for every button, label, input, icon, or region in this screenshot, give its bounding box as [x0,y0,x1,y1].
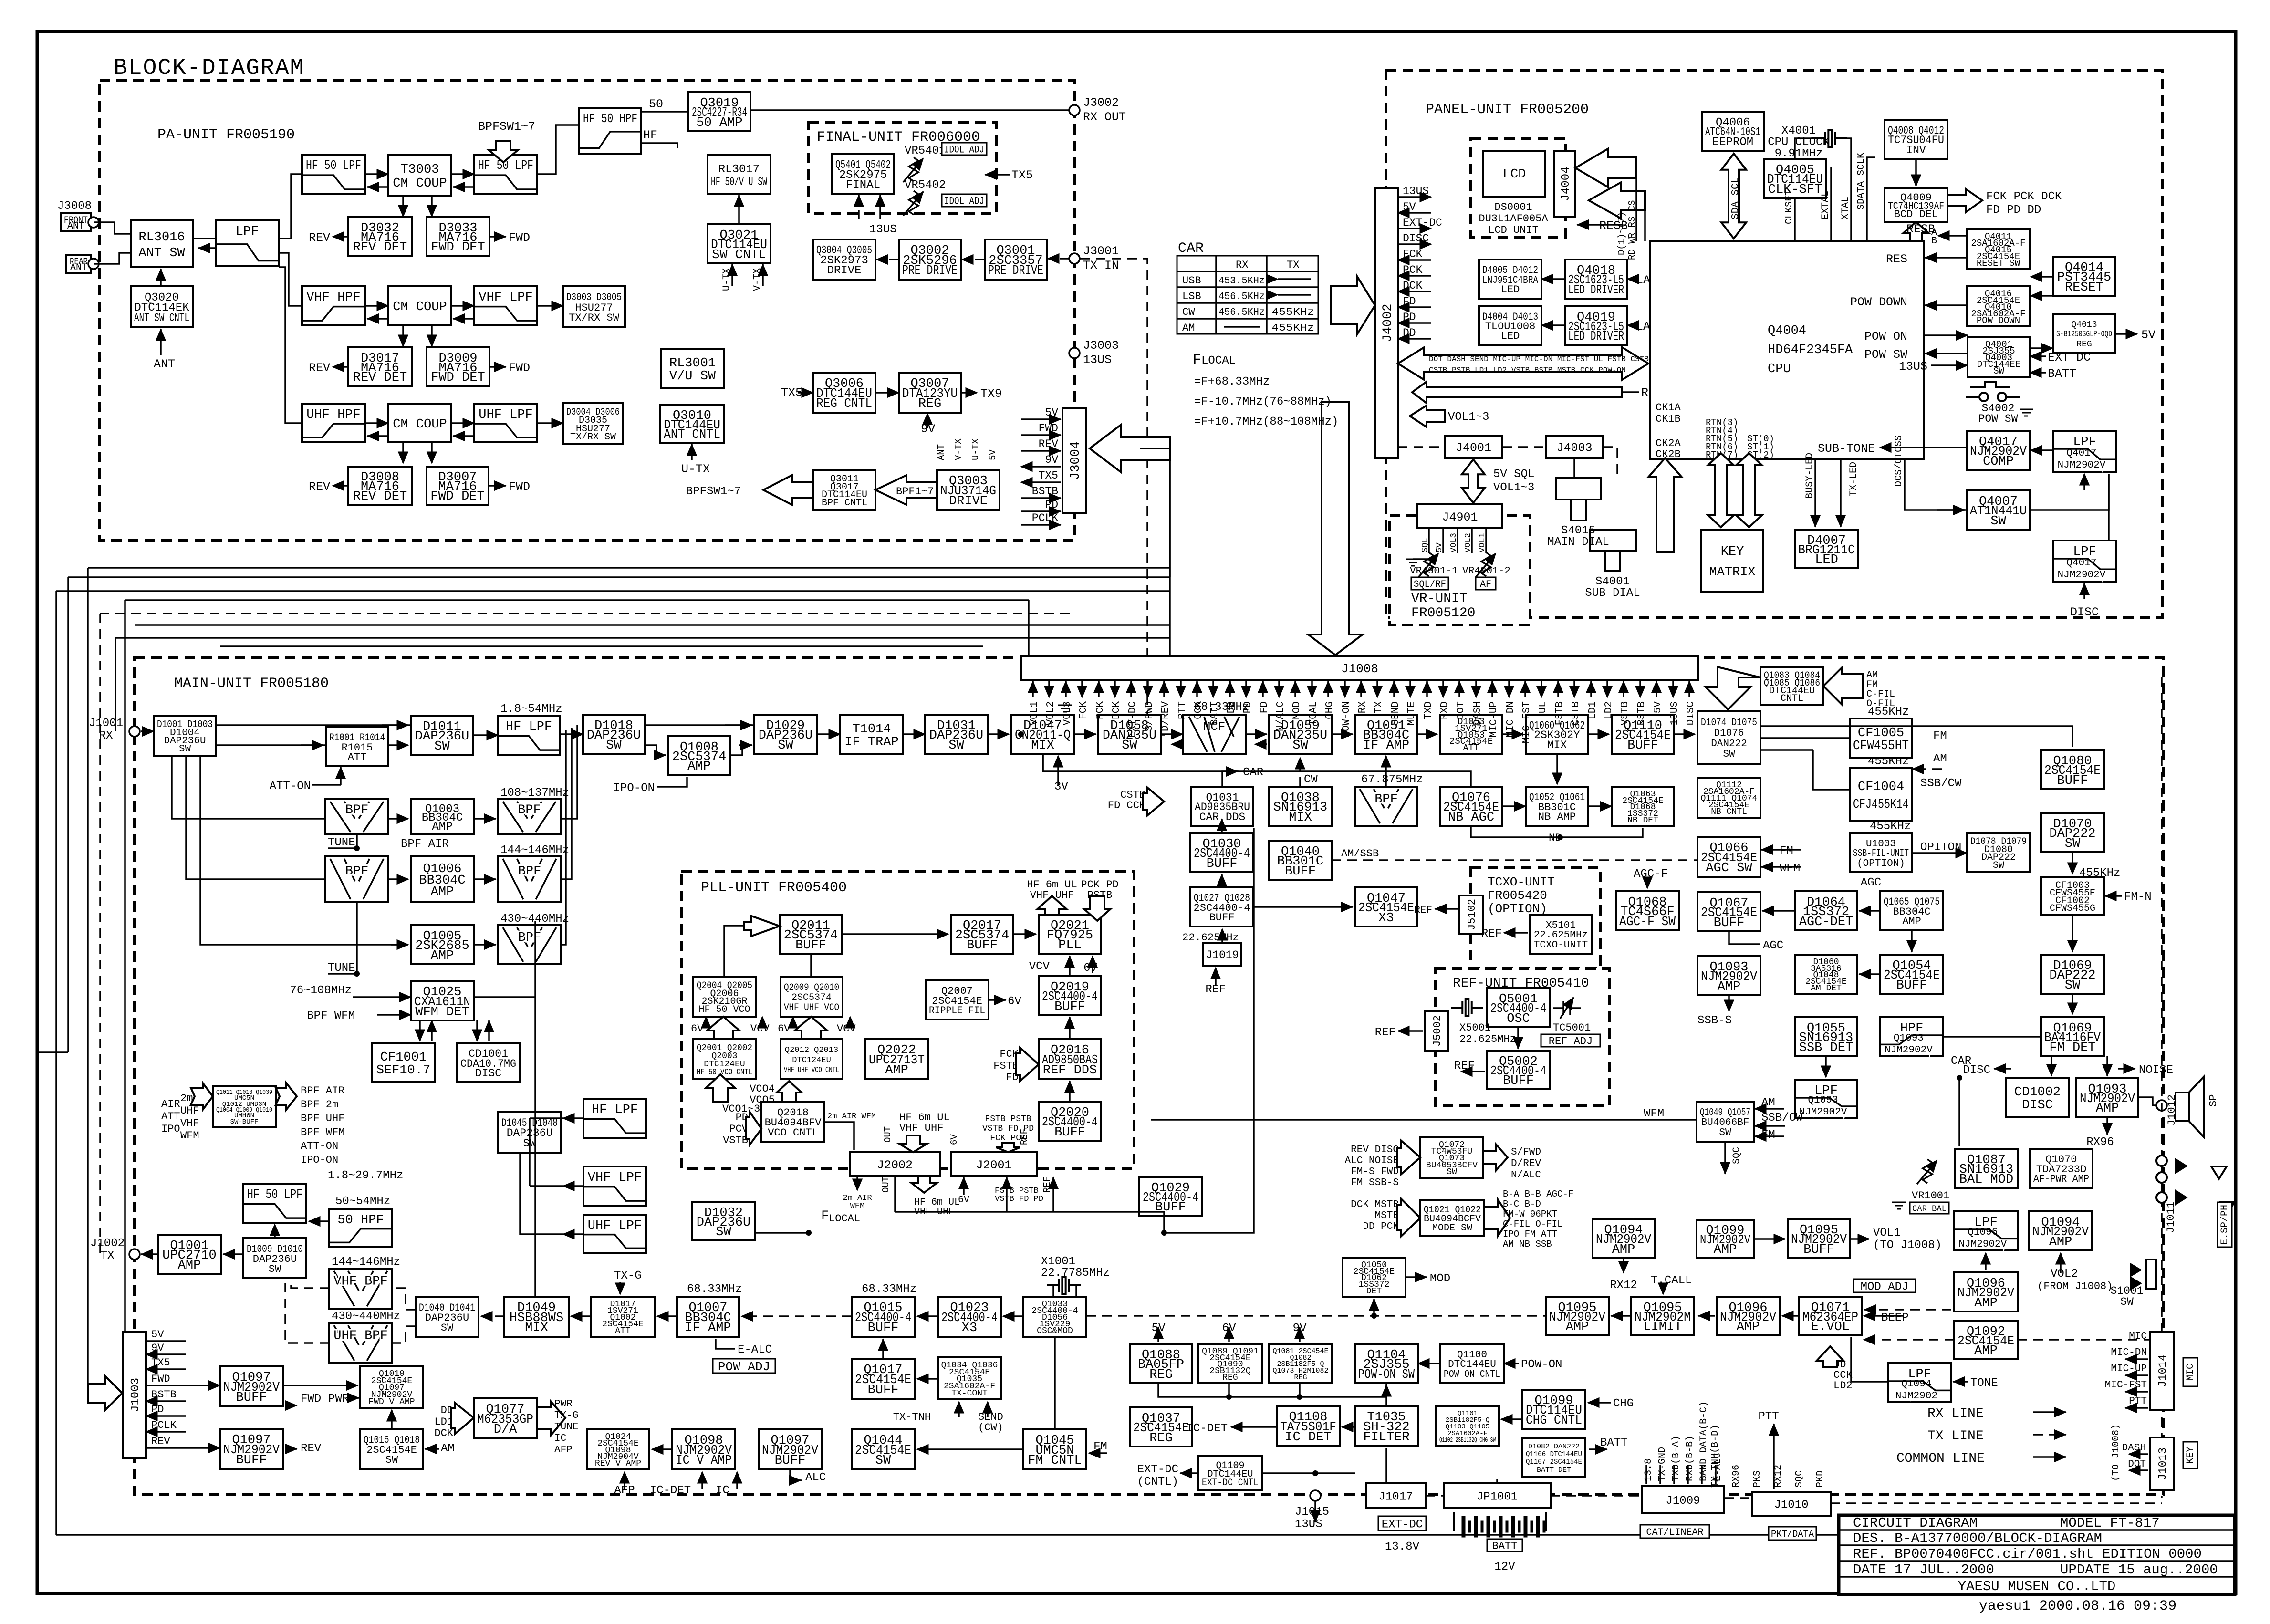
block Q4014 [2053,257,2115,296]
wire fstb up [1006,1177,1008,1212]
svg-text:68.33MHz: 68.33MHz [862,1283,916,1296]
svg-text:TX LINE: TX LINE [1927,1429,1984,1444]
svg-text:AM/SSB: AM/SSB [1341,848,1379,860]
svg-text:POW-ON CNTL: POW-ON CNTL [1444,1369,1500,1380]
svg-text:D1076: D1076 [1714,728,1744,739]
wire HF [641,143,677,148]
filter VHF BPF [329,1269,392,1309]
svg-text:AMP: AMP [885,1063,908,1078]
svg-text:D(1)~(7): D(1)~(7) [1616,212,1627,255]
wire VOL2 vr [1471,528,1473,553]
wire PD [1021,510,1061,512]
wire x1001 lead1 [1052,1285,1054,1297]
svg-text:IF AMP: IF AMP [1363,739,1409,753]
svg-text:VCV: VCV [1029,960,1050,973]
wire j1017 up [1385,1448,1387,1483]
svg-text:Q1049 Q1057: Q1049 Q1057 [1700,1107,1750,1118]
wire HF50LPF to T3003 [365,173,388,175]
svg-text:RX OUT: RX OUT [1083,110,1126,124]
svg-text:VHF UHF VCO CNTL: VHF UHF VCO CNTL [784,1066,839,1075]
block Q3003 [937,470,1000,510]
wire AGC-F in [1646,880,1648,888]
wire LAMP2 [1627,324,1634,326]
wire J3001 TX in [1048,258,1069,260]
svg-text:OSC&MOD: OSC&MOD [1037,1326,1073,1336]
wire to d1045 [530,1117,563,1119]
junction d1047 [1018,731,1024,737]
svg-text:BPFSW1~7: BPFSW1~7 [686,485,741,498]
wire EXT-DC [1398,228,1431,229]
wire J4002 to J4001 dashed [1398,446,1445,448]
svg-text:MOD: MOD [1291,701,1302,719]
block Q1076 [1440,787,1502,826]
connector J4002 [1375,188,1398,458]
wire send [987,1402,989,1417]
filter BPF [498,856,561,902]
block D1053 [1440,715,1502,754]
block Q2011 [780,915,842,954]
svg-text:13US: 13US [1295,1518,1322,1531]
block Q1047 [1355,887,1417,927]
wire AGCDET to Q1067 [1762,910,1795,912]
svg-text:Q1107 2SC4154E: Q1107 2SC4154E [1526,1458,1582,1466]
wire coup to det [431,196,433,217]
block D1040 [416,1297,479,1337]
svg-text:J1003: J1003 [129,1378,142,1412]
svg-text:DCK MSTB: DCK MSTB [1351,1199,1399,1210]
svg-text:VOL2: VOL2 [2051,1268,2078,1280]
svg-text:REG: REG [918,397,942,411]
svg-text:CCK: CCK [1193,701,1204,719]
svg-text:E.VOL: E.VOL [1811,1320,1850,1334]
block Q1066 [1697,837,1760,877]
bus arrow da out [537,1402,565,1435]
wire FD [1398,306,1431,308]
bus wire left v2 [67,577,69,1052]
svg-text:E-ALC: E-ALC [738,1343,772,1356]
svg-text:MSTB: MSTB [1375,1210,1399,1221]
svg-text:U-TX: U-TX [721,268,732,291]
svg-text:TX/RX SW: TX/RX SW [569,312,619,324]
svg-text:LED: LED [1501,284,1520,296]
svg-text:LD2: LD2 [1604,701,1614,719]
wire d1059 to q1051 [1332,733,1353,735]
block D3009 [427,347,489,386]
block Q4007 [1967,490,2030,530]
svg-text:IF TRAP: IF TRAP [844,735,898,750]
svg-text:TX: TX [1374,701,1385,714]
wire legend rx [2033,1411,2066,1413]
svg-text:BUFF: BUFF [1714,916,1745,930]
svg-text:BPF CNTL: BPF CNTL [822,498,867,509]
svg-text:FWD: FWD [509,480,530,494]
title block [1839,1515,2235,1594]
svg-text:BU4066BF: BU4066BF [1701,1117,1749,1128]
wire d1011 to hflpf [473,734,498,736]
bus wire dashed [100,613,1074,614]
wire cntl to sw [1418,1363,1440,1364]
svg-text:J1011: J1011 [2165,1202,2177,1233]
svg-text:OUT: OUT [883,1126,893,1143]
wire j2002 down1 [856,1176,858,1190]
bus arrow [707,1017,739,1039]
filter BPF [1355,787,1417,826]
svg-text:DD: DD [1403,327,1416,339]
wire 50hpf to hf50lpf [309,1220,329,1222]
svg-text:BUFF: BUFF [236,1453,267,1468]
wire RESB [1577,224,1622,226]
svg-text:yaesu1 2000.08.16 09:39: yaesu1 2000.08.16 09:39 [1979,1598,2176,1614]
wire q1023 to q1015 [917,1315,938,1317]
wire batt out [1589,1448,1607,1450]
wire am ssb dashed [1332,859,1698,861]
svg-text:AMP: AMP [1737,1320,1760,1334]
svg-text:UHF: UHF [180,1105,199,1117]
svg-text:NJM2902V: NJM2902V [1958,1239,2007,1250]
svg-text:EXT-DC: EXT-DC [1127,701,1138,738]
svg-text:AM NB SSB: AM NB SSB [1503,1239,1552,1249]
svg-text:AMP: AMP [1902,916,1921,927]
wire to d1045 c [520,1153,563,1234]
svg-text:68.33MHz: 68.33MHz [687,1283,742,1296]
svg-text:ATT: ATT [1463,743,1479,753]
block Q1068 [1616,891,1679,930]
block Q1089 [1198,1344,1262,1383]
svg-text:SW: SW [1990,514,2006,529]
svg-text:INV: INV [1906,144,1926,156]
svg-text:MIC-UP: MIC-UP [1489,701,1499,738]
svg-text:ANT: ANT [70,262,87,273]
wire txg [619,1282,621,1294]
svg-text:SW: SW [179,744,191,755]
block D1069 [2041,955,2104,994]
svg-text:EXT-DC CNTL: EXT-DC CNTL [1202,1478,1259,1489]
wire T3003 to HF50LPF2 [451,173,474,175]
bus wire left v5 [124,600,126,1374]
block Q1030 [1190,833,1253,872]
svg-text:CSTB: CSTB [1571,701,1582,725]
block Q1008 [668,736,730,775]
wire arrow q1005 [391,944,408,946]
block Q1019 [360,1366,423,1408]
svg-text:CW: CW [1182,306,1195,318]
wire x5101 ref [1504,932,1528,934]
label CAT/LINEAR [1640,1525,1709,1538]
block Q1087 [1955,1149,2018,1188]
svg-text:BPF: BPF [1374,792,1398,807]
svg-text:DATE 17 JUL..2000: DATE 17 JUL..2000 [1853,1562,1994,1578]
bus arrow cstb [1143,787,1164,816]
wire 50 to Q3019 [641,111,688,113]
svg-text:TX5: TX5 [1039,469,1058,482]
svg-text:VOL3: VOL3 [1449,533,1458,552]
block Q1099 amp [1697,1220,1754,1258]
svg-text:WFM: WFM [1780,862,1800,875]
wire flocal to q1038 [1164,828,1254,1233]
block Q4004 CPU [1650,241,1924,459]
wire D bus down [1635,178,1637,241]
svg-text:CLK-SFT: CLK-SFT [1768,183,1822,197]
svg-text:BSTB: BSTB [151,1389,177,1401]
wire q1003 to bpf2 [474,818,496,820]
wire mod out [1406,1276,1427,1278]
svg-text:BATT: BATT [1209,701,1220,725]
svg-text:SDA SCL: SDA SCL [1730,177,1741,219]
block Q1104 [1355,1344,1418,1383]
bus arrow [795,1017,827,1039]
node rear ant [88,259,99,269]
wire U-TX to Q3010 [691,444,693,460]
bus arrow into J1003 [88,1376,122,1410]
block CF1003 [2041,877,2104,915]
wire SQC [1724,1142,1726,1174]
wire q1005 to bpf4 [474,944,496,946]
wire SDATA [1867,157,1875,241]
svg-text:LOCAL: LOCAL [829,1213,860,1225]
block D1018 [583,715,645,754]
wire tune1b [356,834,358,848]
unit TCXO-UNIT FR005420 [1471,868,1601,968]
svg-text:PKT/DATA: PKT/DATA [1771,1529,1814,1540]
block Q1054 [1880,955,1943,994]
wire tcall [1662,1287,1664,1294]
wire filter up [1385,1385,1387,1406]
svg-text:YAESU MUSEN CO..LTD: YAESU MUSEN CO..LTD [1958,1579,2116,1594]
svg-text:PKS: PKS [1752,1470,1763,1488]
svg-text:REV: REV [151,1436,170,1447]
wire Q3021 to RL3017 [738,195,740,224]
ground VR1001 [1892,1202,1906,1209]
wire ic-det out [1231,1426,1277,1428]
svg-text:FR005420: FR005420 [1488,888,1547,903]
svg-text:22.625MHz: 22.625MHz [1534,930,1588,941]
block Q1081 [1269,1344,1332,1383]
svg-text:CHG: CHG [1324,701,1335,719]
svg-text:TX5: TX5 [1011,168,1033,182]
svg-text:144~146MHz: 144~146MHz [332,1256,400,1269]
block D4005 [1479,260,1541,299]
connector J1017 [1366,1483,1426,1508]
svg-text:BUFF: BUFF [1054,1125,1085,1140]
wire d1001 to bpf air [172,756,325,819]
svg-text:22.625MHz: 22.625MHz [1459,1033,1516,1045]
wire front ant to RL3016 [94,222,131,234]
node J3001 [1069,253,1080,264]
label IDOL ADJ [942,143,987,156]
wire 5v up [1157,1327,1159,1342]
svg-text:NB AMP: NB AMP [1538,811,1576,823]
bus wire y1310 [135,624,1170,626]
svg-text:REV: REV [301,1442,322,1455]
svg-text:X4001: X4001 [1781,125,1816,137]
svg-text:CFWS455G: CFWS455G [2050,903,2095,914]
wire 3V [1057,756,1059,785]
svg-text:DASH: DASH [1472,701,1483,725]
wire j1017 jp dashed [1426,1495,1444,1497]
wire q1027 to q1047 [1253,906,1353,908]
svg-text:FCK: FCK [1403,248,1423,260]
node J1012 [2156,1100,2167,1111]
svg-text:50 HPF: 50 HPF [337,1213,384,1228]
wire MIC-UP [2125,1374,2148,1376]
wire J4003 to S4015 [1573,458,1575,478]
block Q1007 [677,1297,739,1337]
wire HF50LPF2 to HPF [537,125,579,174]
svg-text:SW: SW [2065,837,2081,851]
svg-text:UHF LPF: UHF LPF [588,1219,642,1233]
junction [1957,1075,1962,1081]
wire 9V [1021,466,1061,468]
wire jp1001 up [1496,1479,1498,1483]
block Q1100 [1440,1344,1504,1383]
svg-text:TUNE: TUNE [328,962,355,975]
wire fmdet to q1093 [2106,1056,2108,1076]
svg-text:BUFF: BUFF [795,938,826,953]
wire FM to Q1080 [1760,726,2072,747]
svg-text:FCK PCK DCK: FCK PCK DCK [1986,190,2062,203]
svg-text:AF-PWR AMP: AF-PWR AMP [2033,1173,2089,1185]
wire 13US [1931,364,1968,366]
svg-text:VCO CNTL: VCO CNTL [768,1127,818,1139]
bus arrow q1072 in [1397,1140,1420,1175]
svg-text:REF. BP0070400FCC.cir/001.sht: REF. BP0070400FCC.cir/001.sht EDITION 00… [1853,1546,2202,1562]
wire Q4018 to LED [1541,278,1565,280]
bus arrow CPU to J4004 2 [1589,182,1645,219]
svg-text:SSB DET: SSB DET [1799,1041,1853,1055]
svg-text:EXT-DC: EXT-DC [1137,1463,1178,1476]
wire car dds [1222,771,1239,787]
svg-text:EXT-DC: EXT-DC [1403,217,1442,229]
wire ref j1019 [1215,968,1217,986]
wire 5V [1398,212,1431,214]
svg-text:VOL1~3: VOL1~3 [1448,411,1489,424]
wire PCK [1398,275,1431,277]
wire AM to SW [1755,1108,1784,1110]
block Q1037 [1130,1407,1192,1447]
svg-text:VR4901-2: VR4901-2 [1462,566,1510,577]
svg-text:2m AIR WFM: 2m AIR WFM [827,1112,876,1121]
svg-text:DISC: DISC [1686,701,1697,725]
wire lpf up [2108,474,2110,541]
wire FM to SW [1755,1135,1784,1137]
svg-text:FWD V AMP: FWD V AMP [368,1397,415,1407]
svg-text:CM COUP: CM COUP [393,300,447,314]
wire d1009 to q1001 [223,1253,243,1255]
svg-text:AGC-DET: AGC-DET [1799,915,1853,929]
wire d1001 to att [216,744,326,746]
node J1015 [1310,1490,1321,1501]
svg-text:RXD(B-B): RXD(B-B) [1685,1436,1696,1481]
wire TX5 j1003 [146,1368,186,1370]
wire chg in [1588,1402,1611,1404]
wire SW to REG [2030,347,2053,349]
svg-text:POW-ON: POW-ON [1521,1358,1562,1371]
svg-text:IF AMP: IF AMP [685,1321,731,1335]
svg-text:22.7785MHz: 22.7785MHz [1041,1267,1110,1280]
svg-text:N/ALC: N/ALC [1511,1170,1541,1181]
svg-text:DET: DET [1366,1287,1382,1296]
connector J5002 [1425,1011,1448,1051]
svg-text:NJM2902V: NJM2902V [1885,1045,1933,1056]
block Q2017 [951,915,1013,954]
svg-text:REV: REV [309,361,330,375]
filter LPF Q1094 [1888,1363,1951,1402]
svg-text:BUFF: BUFF [1627,739,1658,753]
svg-text:1.8~54MHz: 1.8~54MHz [500,703,562,716]
wire 2m air wfm [824,1122,854,1150]
bus arrow swbuff in [191,1083,213,1110]
svg-text:BATT: BATT [1600,1437,1628,1449]
svg-text:BUFF: BUFF [1285,864,1316,879]
svg-text:6V: 6V [949,1134,959,1145]
block Q3010 [660,405,724,443]
svg-text:BPF1~7: BPF1~7 [896,486,934,498]
wire coup to det [431,325,433,346]
wire fwd out [285,1405,297,1406]
wire 5V j1003 [146,1340,186,1342]
block D1001 [154,716,216,756]
svg-text:FWD: FWD [509,231,530,245]
switch S4002 POW SW [1966,382,2020,401]
svg-text:50~54MHz: 50~54MHz [335,1195,390,1208]
svg-text:SQC: SQC [1794,1470,1805,1488]
wire DISC in [2083,583,2085,599]
wire [453,186,474,188]
wire LPF to RL3016 tx [198,247,216,249]
block RL3017 [708,155,771,194]
block Q1101 [1436,1406,1499,1446]
svg-text:LED DRIVER: LED DRIVER [1568,330,1624,344]
svg-text:D/REV: D/REV [1511,1158,1541,1169]
svg-text:BUFF: BUFF [1803,1243,1834,1257]
connector J1014 [2150,1332,2174,1410]
block Q1033 [1023,1297,1086,1337]
bus wire right dashed [2161,677,2163,1498]
svg-text:Q1106 DTC144EU: Q1106 DTC144EU [1526,1450,1582,1458]
block D3033 [427,217,489,256]
svg-text:2SC5374: 2SC5374 [791,992,832,1003]
wire q1045 up [1054,1337,1056,1429]
svg-text:FM: FM [1761,1129,1775,1142]
svg-text:DISC: DISC [475,1067,501,1080]
svg-text:BUSY-LED: BUSY-LED [1804,453,1815,499]
wire cd1001 back [488,1020,490,1041]
svg-text:456.5KHz: 456.5KHz [1218,291,1265,302]
ground S4002 [2020,409,2033,416]
svg-text:PD: PD [151,1404,164,1416]
block Q1025 [411,981,474,1020]
block Q1021 [1420,1200,1484,1236]
svg-text:F: F [821,1209,829,1224]
svg-text:AMP: AMP [2096,1102,2119,1116]
svg-text:J1010: J1010 [1774,1499,1808,1511]
svg-text:POW ADJ: POW ADJ [718,1360,770,1374]
wire uhflpf tx in [563,1233,583,1235]
bus arrow BPFSW top [489,141,518,162]
svg-text:SW: SW [778,739,793,753]
svg-text:SUB-TONE: SUB-TONE [1818,442,1875,456]
svg-text:(TO J1008): (TO J1008) [2111,1424,2122,1481]
wire d1031 to d1047 [988,733,1009,735]
svg-text:TX-CONT: TX-CONT [951,1389,988,1398]
svg-text:BLOCK-DIAGRAM: BLOCK-DIAGRAM [114,55,304,81]
wire coup to det [431,442,433,463]
svg-text:KEY: KEY [1721,545,1744,559]
filter BPF [498,925,561,964]
svg-text:DISC: DISC [2070,605,2099,619]
svg-text:BUFF: BUFF [868,1321,899,1335]
svg-text:SW: SW [1993,860,2004,871]
